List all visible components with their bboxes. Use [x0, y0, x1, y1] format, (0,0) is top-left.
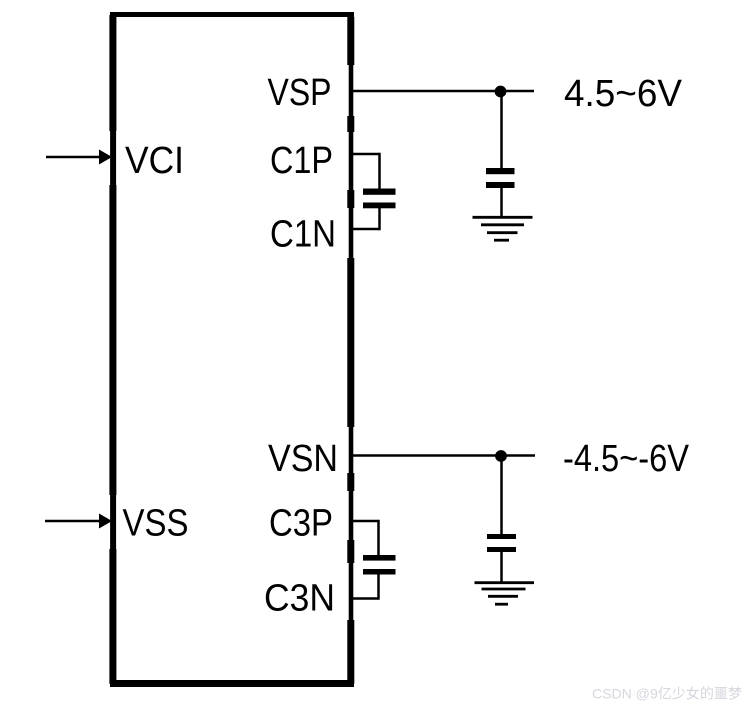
svg-text:-4.5~-6V: -4.5~-6V: [563, 438, 690, 480]
svg-text:VSS: VSS: [123, 503, 189, 545]
svg-text:C3N: C3N: [264, 578, 335, 620]
svg-text:C1P: C1P: [270, 140, 333, 182]
svg-text:VCI: VCI: [125, 140, 184, 182]
svg-text:VSN: VSN: [268, 438, 338, 480]
svg-text:VSP: VSP: [268, 72, 332, 114]
svg-text:4.5~6V: 4.5~6V: [564, 73, 683, 115]
svg-text:CSDN @9亿少女的噩梦: CSDN @9亿少女的噩梦: [592, 686, 742, 702]
svg-text:C3P: C3P: [269, 503, 333, 545]
svg-text:C1N: C1N: [270, 214, 336, 256]
